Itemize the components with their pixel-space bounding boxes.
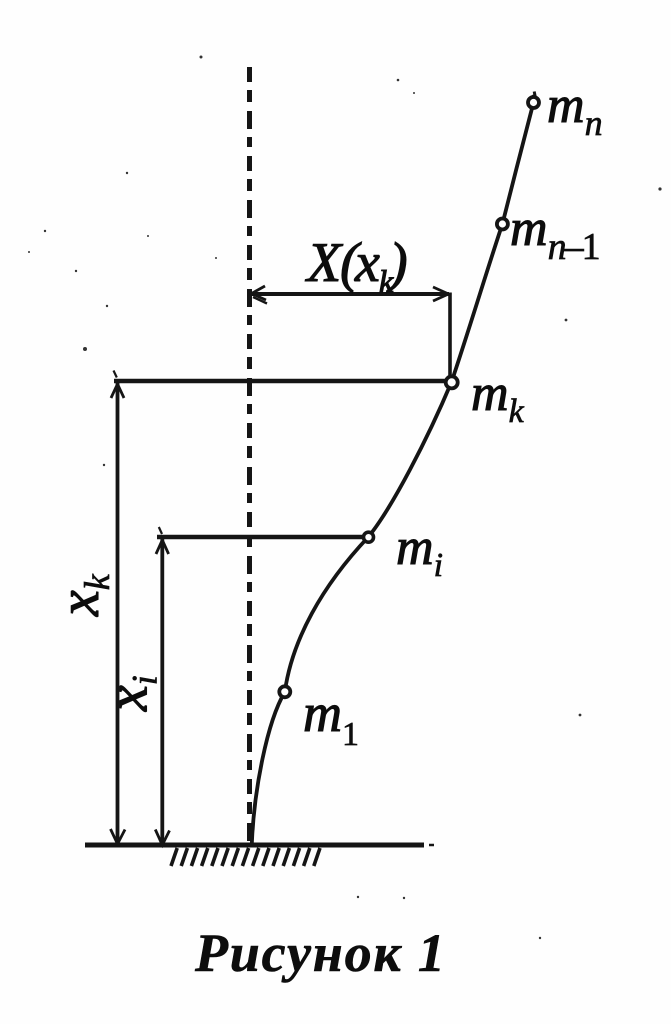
mass node m_n-1 (497, 219, 508, 230)
mass node m_n (528, 97, 539, 108)
curve stub above m_n (534, 92, 535, 98)
x_i top arrowhead (156, 540, 169, 554)
ground hatching (171, 848, 320, 866)
label X(x_k) (305, 232, 408, 299)
vertical connector from arrow to m_k (448, 293, 452, 379)
x_k dimension line (116, 383, 120, 844)
ground line (85, 843, 424, 848)
svg-text:mi: mi (396, 519, 443, 584)
svg-text:mn: mn (547, 77, 603, 143)
x_i dimension line (160, 538, 164, 845)
svg-text:xk: xk (46, 573, 117, 617)
X(x_k) dimension arrow line (251, 292, 449, 296)
left arrowhead scan ghost (253, 297, 267, 304)
x_k bottom arrowhead (111, 829, 126, 844)
deflection curve (252, 103, 534, 845)
x_k top arrowhead (111, 384, 124, 398)
svg-text:): ) (386, 232, 408, 294)
X(x_k) right arrowhead (433, 287, 449, 301)
mass node m_k (446, 376, 458, 388)
horizontal level line at m_i (157, 535, 368, 539)
svg-text:X: X (305, 232, 344, 294)
ground line speck (429, 844, 434, 847)
undeformed axis (dashed vertical line) (247, 67, 252, 845)
svg-text:Рисунок 1: Рисунок 1 (194, 923, 447, 983)
mass node m_i (364, 532, 374, 542)
horizontal level line at m_k (114, 379, 452, 383)
x_i bottom arrowhead (155, 830, 169, 846)
svg-text:mn–1: mn–1 (510, 200, 601, 268)
X(x_k) left arrowhead (252, 286, 267, 300)
mass node m_1 (279, 686, 290, 697)
svg-text:x: x (354, 232, 380, 294)
svg-text:xi: xi (95, 675, 165, 712)
svg-text:mk: mk (471, 365, 525, 430)
svg-text:m1: m1 (303, 683, 359, 753)
